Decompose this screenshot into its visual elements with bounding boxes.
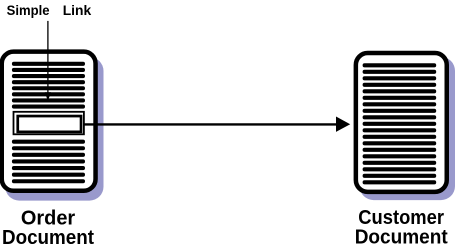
order document text lines (top block): [12, 62, 85, 109]
svg-text:Document: Document: [2, 227, 94, 249]
simple link highlight box inner rectangle: [18, 116, 81, 132]
customer document body: [356, 53, 447, 192]
customer document shadow: [360, 57, 455, 200]
simple link highlight box outer rectangle: [14, 112, 84, 135]
link arrowhead: [336, 117, 350, 132]
order document body: [2, 52, 96, 191]
order document shadow: [5, 57, 103, 201]
svg-text:Link: Link: [63, 2, 92, 18]
wire: link arrow shaft from order document box to customer document: [83, 123, 338, 125]
customer document text lines: [363, 63, 437, 184]
wire: leader line from Simple Link label: [47, 21, 49, 94]
order document text lines (bottom block): [12, 140, 85, 184]
svg-text:Customer: Customer: [358, 207, 444, 229]
svg-text:Simple: Simple: [7, 2, 50, 18]
svg-text:Document: Document: [355, 227, 448, 249]
leader arrowhead: [45, 92, 51, 101]
